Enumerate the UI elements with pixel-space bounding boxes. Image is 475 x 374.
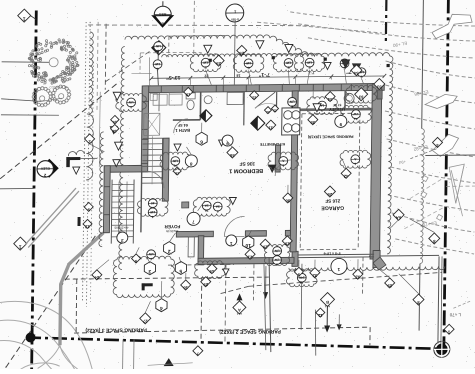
svg-text:6: 6: [200, 139, 203, 145]
svg-text:E: E: [291, 104, 293, 108]
svg-text:25: 25: [216, 61, 221, 66]
svg-text:LW: LW: [307, 60, 312, 64]
svg-text:4: 4: [160, 305, 163, 311]
svg-text:LW: LW: [173, 159, 178, 163]
svg-text:16: 16: [183, 285, 188, 290]
svg-text:E: E: [247, 66, 249, 70]
svg-text:12: 12: [84, 224, 89, 229]
svg-text:64 SF: 64 SF: [177, 123, 188, 127]
svg-text:PARKING SPACE 3 (9X22): PARKING SPACE 3 (9X22): [85, 326, 147, 333]
svg-text:18: 18: [113, 129, 117, 133]
svg-text:FOYER: FOYER: [164, 224, 181, 229]
svg-text:30: 30: [205, 208, 209, 212]
svg-text:30: 30: [285, 198, 290, 203]
svg-text:E: E: [287, 66, 289, 70]
svg-text:ELEV: ELEV: [40, 166, 50, 170]
svg-text:3: 3: [148, 268, 151, 274]
svg-text:1: 1: [19, 243, 22, 249]
svg-text:BEDROOM 1: BEDROOM 1: [229, 167, 263, 173]
svg-text:LW: LW: [156, 44, 161, 48]
svg-text:22: 22: [273, 109, 277, 113]
svg-text:PARKING SPACE 2 (9X22): PARKING SPACE 2 (9X22): [219, 328, 281, 335]
svg-text:25: 25: [327, 192, 332, 197]
svg-text:LW: LW: [286, 61, 291, 65]
svg-text:B: B: [326, 300, 329, 305]
svg-text:29: 29: [284, 241, 289, 246]
svg-text:BATH 1: BATH 1: [175, 128, 191, 133]
svg-text:LW: LW: [290, 100, 295, 104]
svg-text:31: 31: [269, 125, 273, 129]
svg-text:13'-5″: 13'-5″: [166, 74, 181, 80]
svg-text:40: 40: [151, 201, 155, 205]
svg-text:32: 32: [355, 275, 360, 280]
svg-text:29: 29: [203, 282, 208, 287]
svg-text:336 SF: 336 SF: [239, 160, 255, 166]
svg-text:1: 1: [23, 15, 26, 21]
svg-text:15: 15: [186, 92, 190, 96]
svg-text:22: 22: [252, 96, 256, 100]
svg-text:1: 1: [130, 105, 132, 109]
svg-text:6: 6: [151, 215, 153, 219]
svg-text:GARAGE: GARAGE: [321, 204, 344, 210]
svg-text:3: 3: [321, 108, 323, 112]
svg-text:KITCHENETTE: KITCHENETTE: [259, 142, 285, 146]
svg-text:A1: A1: [354, 117, 358, 121]
svg-text:27: 27: [142, 319, 147, 324]
svg-text:PARKING SPACE 1(9X18): PARKING SPACE 1(9X18): [307, 134, 353, 138]
svg-text:40x36 lift: 40x36 lift: [166, 229, 178, 233]
svg-text:LW: LW: [149, 252, 154, 256]
svg-text:9'-8 x 18'-6: 9'-8 x 18'-6: [323, 251, 340, 255]
svg-text:LW: LW: [150, 210, 155, 214]
svg-text:44+20 RIS: 44+20 RIS: [114, 226, 128, 230]
svg-text:42: 42: [343, 174, 348, 179]
svg-text:216 SF: 216 SF: [325, 198, 340, 203]
svg-text:LW: LW: [203, 61, 208, 65]
svg-text:32: 32: [312, 273, 317, 278]
svg-text:LW: LW: [155, 62, 160, 66]
svg-text:LW: LW: [275, 249, 280, 253]
svg-text:LW: LW: [246, 61, 251, 65]
svg-text:19: 19: [175, 171, 179, 175]
svg-text:36: 36: [229, 153, 234, 158]
svg-text:5: 5: [179, 268, 182, 274]
svg-text:10: 10: [113, 120, 117, 124]
svg-text:CONIFER 10: CONIFER 10: [49, 85, 67, 89]
svg-text:35: 35: [310, 120, 315, 125]
svg-text:21: 21: [247, 255, 252, 260]
svg-text:LW: LW: [353, 112, 358, 116]
svg-text:33: 33: [376, 84, 381, 89]
svg-text:F: F: [150, 257, 152, 261]
svg-text:24: 24: [94, 275, 99, 280]
svg-text:7'-1″: 7'-1″: [258, 71, 270, 77]
svg-text:22: 22: [266, 110, 270, 114]
svg-text:10: 10: [245, 242, 251, 248]
svg-text:E: E: [308, 65, 310, 69]
svg-text:11: 11: [317, 313, 322, 318]
svg-text:2: 2: [168, 248, 171, 254]
svg-text:25: 25: [239, 51, 244, 56]
svg-text:0: 0: [217, 209, 219, 213]
svg-text:A3.1: A3.1: [236, 312, 242, 315]
svg-text:L +70: L +70: [449, 312, 461, 317]
svg-text:E: E: [204, 65, 206, 69]
svg-text:34: 34: [353, 71, 358, 76]
svg-text:19: 19: [209, 269, 214, 274]
svg-text:LW: LW: [129, 100, 134, 104]
svg-text:A5: A5: [299, 280, 303, 284]
svg-text:1: 1: [354, 162, 356, 166]
svg-text:E: E: [156, 67, 158, 71]
svg-text:29: 29: [387, 283, 392, 288]
svg-text:V1: V1: [173, 164, 177, 168]
svg-text:LW: LW: [275, 258, 280, 262]
svg-text:2: 2: [276, 263, 278, 267]
svg-text:34: 34: [327, 97, 332, 102]
svg-text:1: 1: [282, 164, 284, 168]
svg-text:18: 18: [236, 73, 240, 77]
svg-text:6A: 6A: [396, 215, 401, 220]
